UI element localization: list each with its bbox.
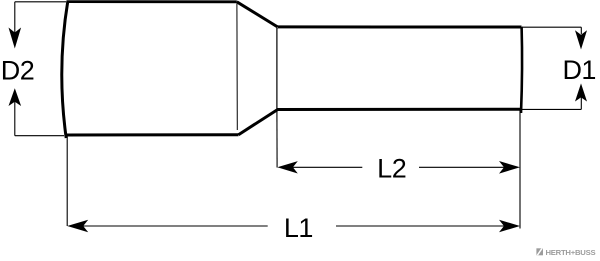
taper bottom edge bbox=[239, 110, 278, 135]
label D2 bbox=[1, 55, 35, 85]
L1 dimension line right segment bbox=[336, 225, 505, 227]
tube left seam line at taper junction bbox=[276, 28, 278, 109]
Herth+Buss logo text bbox=[546, 248, 596, 257]
tube right end cap line bbox=[521, 27, 522, 113]
L2 dimension line right segment bbox=[419, 166, 505, 168]
L2 left extension line bbox=[276, 109, 278, 168]
svg-text:D2: D2 bbox=[1, 55, 35, 85]
L2 right arrowhead (right) bbox=[499, 161, 520, 174]
D2 top extension line bbox=[15, 1, 66, 3]
D1 lower arrowhead (up) bbox=[575, 83, 587, 101]
D1 top extension line bbox=[522, 26, 581, 28]
tube top edge bbox=[278, 25, 522, 28]
shared right extension line (L2 and L1) bbox=[519, 111, 521, 229]
svg-text:HERTH+BUSS: HERTH+BUSS bbox=[546, 248, 596, 257]
D2 dimension line upper segment bbox=[14, 2, 16, 33]
D2 dimension line lower segment bbox=[14, 102, 16, 136]
ferrule collar right seam line bbox=[236, 4, 238, 130]
L1 left extension line bbox=[66, 136, 68, 226]
ferrule collar (plastic sleeve) top edge bbox=[67, 0, 237, 3]
label L1 bbox=[284, 213, 313, 243]
D2 upper arrowhead (down) bbox=[9, 28, 22, 49]
tube bottom edge bbox=[278, 108, 522, 111]
label D1 bbox=[562, 55, 596, 85]
D1 upper arrowhead (down) bbox=[575, 30, 587, 49]
L2 dimension line left segment bbox=[293, 166, 362, 168]
label L2 bbox=[377, 153, 406, 183]
svg-text:D1: D1 bbox=[562, 55, 596, 85]
ferrule collar bottom edge bbox=[65, 133, 239, 136]
D1 bottom extension line bbox=[522, 108, 582, 110]
D2 lower arrowhead (up) bbox=[9, 88, 22, 106]
svg-text:L2: L2 bbox=[377, 153, 406, 183]
D1 dimension line upper segment bbox=[580, 27, 582, 34]
D1 dimension line lower segment bbox=[580, 97, 582, 109]
L2 left arrowhead (left) bbox=[277, 161, 298, 173]
L1 right arrowhead (right) bbox=[499, 220, 520, 233]
ferrule collar left end cap arc bbox=[62, 1, 68, 138]
taper top edge bbox=[237, 2, 278, 27]
D2 bottom extension line bbox=[15, 135, 64, 137]
svg-text:L1: L1 bbox=[284, 213, 313, 243]
Herth+Buss logo icon bbox=[536, 248, 543, 255]
L1 left arrowhead (left) bbox=[67, 220, 88, 233]
L1 dimension line left segment bbox=[83, 225, 268, 227]
